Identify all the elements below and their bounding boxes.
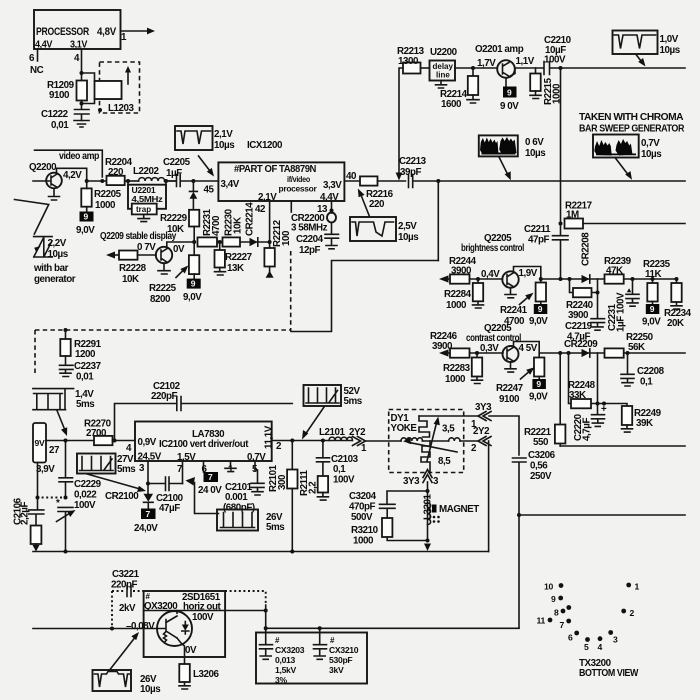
svg-text:0,013: 0,013 <box>275 655 296 665</box>
svg-text:TAKEN WITH CHROMA: TAKEN WITH CHROMA <box>579 112 683 123</box>
svg-text:7: 7 <box>208 472 213 482</box>
resistor R2234 <box>664 279 692 329</box>
sawtooth icon 2,2V <box>33 237 76 285</box>
svg-text:3kV: 3kV <box>329 665 344 675</box>
resistor R2239 <box>604 256 632 284</box>
capacitor C2208 <box>621 353 665 388</box>
black marker 24,0V <box>134 509 158 535</box>
wire main chroma bus <box>438 180 685 182</box>
capacitor C2237 <box>60 356 102 383</box>
wire yoke pin3 down <box>427 482 429 541</box>
svg-text:0,7V: 0,7V <box>641 138 660 149</box>
svg-text:10: 10 <box>544 582 553 592</box>
svg-text:550: 550 <box>533 437 549 448</box>
svg-text:generator: generator <box>34 274 76 285</box>
resistor R2101 <box>268 441 298 552</box>
ground arrow L3201 <box>424 539 431 552</box>
svg-text:9,0V: 9,0V <box>642 317 661 328</box>
inductor yoke H-coil right <box>449 438 460 441</box>
wire pin 40 <box>344 180 360 182</box>
svg-text:3: 3 <box>139 463 145 474</box>
svg-text:+: + <box>601 404 607 415</box>
wire bus 446 <box>560 445 685 447</box>
svg-text:3 58MHz: 3 58MHz <box>291 223 328 234</box>
capacitor C2106 branch: dashed link <box>37 497 65 499</box>
diode CR2213 <box>190 181 198 210</box>
dashed service line horizontal <box>35 329 290 331</box>
resistor R2230 <box>223 208 244 246</box>
svg-text:4: 4 <box>126 443 132 454</box>
wire R2213 drop with arrow <box>399 68 403 175</box>
svg-text:2Y2: 2Y2 <box>473 426 490 437</box>
pin 1 ground <box>225 461 236 472</box>
svg-text:7: 7 <box>560 620 565 630</box>
ground <box>74 121 89 128</box>
wire to R2249 <box>598 404 628 407</box>
svg-text:9: 9 <box>536 379 541 389</box>
waveform 52V 5ms <box>302 385 363 440</box>
wire <box>423 440 449 442</box>
connector 2Y2-2 chevrons <box>471 426 491 454</box>
svg-text:39K: 39K <box>636 418 653 429</box>
svg-text:220: 220 <box>108 167 124 178</box>
capacitor C2210 <box>544 35 685 75</box>
svg-text:BAR SWEEP GENERATOR: BAR SWEEP GENERATOR <box>579 124 684 135</box>
wire main video line <box>87 180 107 182</box>
resistor below C2106 <box>31 526 42 552</box>
resistor R3210 <box>351 518 428 547</box>
inductor yoke V-coil top <box>419 416 430 437</box>
inductor L1203 in dashed box <box>82 62 140 114</box>
svg-text:R2283: R2283 <box>443 363 471 374</box>
svg-text:500V: 500V <box>351 512 373 523</box>
svg-text:L3201: L3201 <box>423 493 434 520</box>
resistor R2291 on service line <box>60 328 101 360</box>
svg-text:R2229: R2229 <box>160 213 188 224</box>
node <box>559 66 563 70</box>
svg-text:O2201 amp: O2201 amp <box>475 44 524 55</box>
svg-text:R2205: R2205 <box>94 189 122 200</box>
potentiometer 3,9V box <box>33 423 94 498</box>
resistor R2205 <box>81 181 121 212</box>
resistor R2235 <box>643 259 671 302</box>
svg-text:24,0V: 24,0V <box>134 523 158 534</box>
svg-text:4700: 4700 <box>211 215 222 236</box>
wire horiz bus 628 <box>33 628 157 630</box>
waveform 0,6V 10us chroma <box>479 135 546 180</box>
bus wire base line <box>217 241 270 243</box>
svg-text:R2241: R2241 <box>500 305 528 316</box>
svg-text:27: 27 <box>49 445 60 456</box>
svg-text:3,4V: 3,4V <box>221 179 240 190</box>
svg-text:L1203: L1203 <box>108 103 135 114</box>
pin 5 capacitor C2101 <box>223 461 264 514</box>
resistor R2283 <box>443 353 483 385</box>
inductor L2101 <box>319 427 353 441</box>
wire video amp feed <box>35 150 103 177</box>
pin 6 stub NC <box>29 49 44 76</box>
wire to pin 45 <box>193 180 218 182</box>
svg-text:24,5V: 24,5V <box>138 452 162 463</box>
wire contrast collector loop <box>514 342 540 358</box>
inductor L3206 <box>179 664 220 689</box>
svg-text:line: line <box>436 71 450 80</box>
resistor R2217 <box>559 201 686 229</box>
svg-text:Q2209 stable display: Q2209 stable display <box>100 231 177 242</box>
capacitor C2229 <box>59 441 102 512</box>
svg-text:C2229: C2229 <box>74 479 102 490</box>
svg-text:1,1V: 1,1V <box>516 56 535 67</box>
svg-text:6: 6 <box>568 633 573 643</box>
svg-text:R2228: R2228 <box>119 263 147 274</box>
wire <box>165 180 176 182</box>
wire Q2205 emitter ground <box>505 288 516 298</box>
wire connector1 to C3206 net <box>489 416 519 455</box>
capacitor C2231 <box>607 279 639 332</box>
svg-text:10µs: 10µs <box>525 148 546 159</box>
svg-text:1300: 1300 <box>398 56 419 67</box>
svg-text:R2284: R2284 <box>444 289 472 300</box>
svg-text:1µF 100V: 1µF 100V <box>616 292 627 332</box>
resistor R2249 <box>622 406 662 432</box>
capacitor C1222 <box>41 109 89 131</box>
svg-text:3: 3 <box>613 635 618 645</box>
wire yoke horizontal bus <box>366 440 401 442</box>
svg-text:0.001: 0.001 <box>225 492 248 503</box>
yoke adjust arrow 1 <box>403 438 457 452</box>
svg-text:100V: 100V <box>544 55 566 66</box>
wire pin 1 output arrow <box>121 28 156 43</box>
arrow from 26V waveform to pin7 node <box>186 477 219 514</box>
waveform 26V 5ms <box>217 510 285 534</box>
svg-text:#: # <box>146 592 151 601</box>
transistor Q2200 <box>29 162 82 188</box>
svg-text:10µs: 10µs <box>398 232 419 243</box>
resistor R2231 <box>198 208 223 246</box>
svg-text:with bar: with bar <box>33 263 69 274</box>
connector 3Y3-1 chevrons <box>419 402 492 430</box>
svg-text:CX3210: CX3210 <box>329 645 359 655</box>
capacitor C2204 <box>296 223 339 256</box>
svg-text:1M: 1M <box>566 210 579 221</box>
capacitor C3206 <box>513 458 527 628</box>
dashed service line vertical <box>290 251 292 331</box>
waveform 1,0V 10us <box>613 31 681 67</box>
svg-text:trap: trap <box>136 205 151 214</box>
svg-text:20K: 20K <box>667 318 684 329</box>
wire <box>378 180 406 182</box>
svg-text:10µs: 10µs <box>214 140 235 151</box>
svg-text:300: 300 <box>277 474 288 490</box>
wire to connector 2 <box>460 440 478 442</box>
wire main vertical net from C2210 node <box>560 68 562 235</box>
svg-text:470pF: 470pF <box>349 502 376 513</box>
svg-text:0 6V: 0 6V <box>525 137 544 148</box>
svg-text:0,4V: 0,4V <box>481 269 500 280</box>
waveform 0,7V 10us chroma <box>593 135 662 180</box>
svg-text:CR2208: CR2208 <box>581 232 592 266</box>
yoke adjust arrow 2 <box>427 417 440 462</box>
svg-text:5: 5 <box>584 642 589 652</box>
black marker 9 0V <box>500 78 519 112</box>
svg-text:5ms: 5ms <box>117 464 136 475</box>
transformer TX3200 bottom view pins <box>537 582 640 680</box>
magnet icon + label <box>432 504 479 523</box>
wire stub pin 41 <box>290 201 292 212</box>
svg-text:4,7µF: 4,7µF <box>582 418 593 441</box>
svg-text:9,0V: 9,0V <box>529 392 548 403</box>
svg-text:45: 45 <box>204 185 215 196</box>
connector 3Y3-3 chevron <box>403 470 439 488</box>
svg-text:1000: 1000 <box>95 200 116 211</box>
electrolytic cap beside C2229 <box>56 498 76 552</box>
resistor R2229 <box>160 210 199 235</box>
wire bus 515 <box>519 514 685 516</box>
svg-text:9,0V: 9,0V <box>183 292 202 303</box>
svg-text:100V: 100V <box>74 500 96 511</box>
svg-text:1,5kV: 1,5kV <box>275 665 297 675</box>
svg-text:0,01: 0,01 <box>51 120 69 131</box>
wire Q2200 collector <box>57 168 87 181</box>
waveform 27V 5ms <box>77 454 146 493</box>
svg-text:3Y3: 3Y3 <box>475 402 492 413</box>
wire pin 7 <box>182 461 184 484</box>
svg-text:11: 11 <box>537 616 546 626</box>
svg-text:3Y3: 3Y3 <box>403 476 420 487</box>
svg-text:Q2200: Q2200 <box>29 162 57 173</box>
svg-text:9: 9 <box>191 279 196 289</box>
transistor Q2205 contrast <box>503 343 538 362</box>
svg-text:2: 2 <box>471 443 477 454</box>
resistor R2248 loop <box>568 353 598 408</box>
svg-text:IC2100 vert driver/out: IC2100 vert driver/out <box>159 439 249 450</box>
node <box>436 179 440 183</box>
waveform 2,1V 10us <box>175 126 235 177</box>
svg-text:C3204: C3204 <box>349 491 377 502</box>
svg-text:0,9V: 0,9V <box>138 437 157 448</box>
black marker 9,0V Q2209 <box>183 279 202 303</box>
svg-text:47pF: 47pF <box>528 235 550 246</box>
svg-text:4: 4 <box>74 53 80 64</box>
svg-text:2,5V: 2,5V <box>398 221 417 232</box>
contrast bus arrow input <box>439 349 449 356</box>
wire contrast bus <box>539 352 604 354</box>
svg-text:9: 9 <box>84 212 89 222</box>
svg-text:9 0V: 9 0V <box>500 101 519 112</box>
resistor R2228 with arrow <box>106 251 156 286</box>
waveform 2,5V 10us <box>350 189 419 244</box>
svg-text:13K: 13K <box>227 263 244 274</box>
svg-text:100V: 100V <box>333 475 355 486</box>
black marker 9,0V <box>642 302 661 328</box>
svg-text:0V: 0V <box>185 645 197 656</box>
svg-text:8: 8 <box>554 608 559 618</box>
resistor R2214 <box>440 68 479 110</box>
svg-text:33K: 33K <box>569 390 586 401</box>
wire pin4 top loop to C2102 <box>115 404 177 441</box>
svg-text:220: 220 <box>369 199 385 210</box>
wire <box>470 278 503 280</box>
wire L-path from pin40 net <box>291 261 438 332</box>
svg-text:11K: 11K <box>645 269 661 280</box>
resistor R2212 <box>264 219 292 277</box>
resistor R2204 <box>105 157 133 185</box>
transistor Q2201 amp <box>475 44 544 78</box>
svg-text:PROCESSOR: PROCESSOR <box>36 26 89 38</box>
capacitor C2219 <box>565 279 605 343</box>
diode CR2100 <box>105 491 153 508</box>
svg-text:#: # <box>330 636 335 645</box>
IC2100 LA7830 vert driver <box>126 422 282 476</box>
PROCESSOR box U1200 <box>34 10 121 51</box>
capacitor C2211 <box>524 224 568 279</box>
svg-text:video amp: video amp <box>59 151 99 162</box>
svg-text:2700: 2700 <box>86 428 107 439</box>
capacitor C2103 <box>317 441 359 486</box>
svg-text:10µs: 10µs <box>641 149 662 160</box>
svg-text:100V: 100V <box>192 612 214 623</box>
wire bus tail <box>624 278 677 280</box>
svg-text:220pF: 220pF <box>111 580 138 591</box>
connector 2Y2-1 chevrons <box>349 427 367 454</box>
svg-text:4 5V: 4 5V <box>519 343 538 354</box>
transistor QX3200 horiz out box <box>144 591 226 664</box>
delay line U2200 <box>421 47 458 88</box>
dashed link from C3221 to collector <box>225 591 266 605</box>
resistor R2241 <box>500 283 546 328</box>
svg-text:0,01: 0,01 <box>76 372 94 383</box>
svg-text:1: 1 <box>121 32 127 43</box>
wire Q2205 collector loop <box>514 267 541 283</box>
svg-text:10K: 10K <box>122 274 139 285</box>
svg-text:1200: 1200 <box>75 349 96 360</box>
svg-text:2,2: 2,2 <box>308 481 319 494</box>
svg-text:processor: processor <box>279 184 318 194</box>
svg-text:9100: 9100 <box>499 394 520 405</box>
svg-text:NC: NC <box>30 65 44 76</box>
svg-text:4,5MHz: 4,5MHz <box>132 194 163 204</box>
svg-text:C2208: C2208 <box>637 366 665 377</box>
svg-text:CR2209: CR2209 <box>564 339 598 350</box>
svg-text:3900: 3900 <box>432 341 453 352</box>
inductor yoke H-coil left <box>401 438 422 441</box>
svg-text:0,3V: 0,3V <box>480 343 499 354</box>
svg-text:10µs: 10µs <box>140 684 161 695</box>
wire <box>455 67 497 69</box>
svg-text:if/video: if/video <box>287 174 310 184</box>
capacitor C2213 <box>399 156 439 188</box>
resistor R2213 <box>397 46 425 74</box>
svg-text:2,2V: 2,2V <box>48 238 67 249</box>
svg-text:9100: 9100 <box>49 90 70 101</box>
svg-text:#: # <box>275 636 280 645</box>
node pin45 junction <box>191 179 195 183</box>
pin 6 black marker 24 0V <box>198 461 222 496</box>
svg-text:11,1V: 11,1V <box>264 425 275 449</box>
svg-text:5ms: 5ms <box>76 399 95 410</box>
svg-text:0,7V: 0,7V <box>247 452 266 463</box>
wire bus 551 ground return <box>33 551 489 553</box>
black marker 9,0V <box>529 377 548 403</box>
svg-text:4,4V: 4,4V <box>320 192 339 203</box>
svg-text:12pF: 12pF <box>299 245 321 256</box>
waveform 1,4V 5ms <box>33 389 95 436</box>
resistor R2284 <box>444 279 484 311</box>
inductor yoke V-coil bottom <box>421 441 430 473</box>
resistor R2227 <box>215 242 253 275</box>
svg-text:brightness control: brightness control <box>461 243 525 254</box>
svg-text:MAGNET: MAGNET <box>439 504 479 515</box>
zigzag chroma input <box>15 200 49 235</box>
svg-text:9: 9 <box>650 304 655 314</box>
wire pin 2 bus <box>272 440 352 442</box>
svg-text:3900: 3900 <box>568 310 589 321</box>
black marker 9,0V <box>529 302 548 328</box>
svg-text:24 0V: 24 0V <box>198 485 222 496</box>
svg-text:56K: 56K <box>628 342 645 353</box>
svg-text:1000: 1000 <box>445 374 466 385</box>
IC U2202 PART OF TA8879N <box>218 162 344 203</box>
resistor R2247 <box>496 358 544 406</box>
resistor R2240 loop <box>566 279 598 321</box>
svg-text:C3206: C3206 <box>528 450 556 461</box>
resistor R2225 <box>149 242 199 305</box>
wire pin 4 <box>74 49 84 81</box>
svg-text:C2211: C2211 <box>524 224 551 235</box>
diode CR2214 <box>245 202 258 246</box>
wire contrast emitter ground <box>505 362 516 372</box>
svg-text:8,5: 8,5 <box>438 456 451 467</box>
svg-text:9: 9 <box>507 88 512 98</box>
resistor R2250 <box>605 332 654 358</box>
svg-text:0 7V: 0 7V <box>137 242 156 253</box>
svg-text:1,0V: 1,0V <box>660 34 679 45</box>
transistor Q2205 brightness <box>502 268 537 288</box>
svg-text:4,8V: 4,8V <box>97 26 117 38</box>
wire <box>125 180 139 182</box>
svg-text:2,2µF: 2,2µF <box>20 502 31 525</box>
svg-text:9,0V: 9,0V <box>76 225 95 236</box>
svg-text:C2213: C2213 <box>399 156 427 167</box>
svg-text:47K: 47K <box>606 266 623 277</box>
svg-text:39pF: 39pF <box>400 167 422 178</box>
trap filter U2201 <box>128 181 166 222</box>
svg-text:3,5: 3,5 <box>442 424 455 435</box>
svg-text:2: 2 <box>276 441 282 452</box>
svg-text:7: 7 <box>146 509 151 519</box>
svg-text:R3210: R3210 <box>351 525 379 536</box>
svg-text:3,1V: 3,1V <box>70 40 88 51</box>
svg-text:5ms: 5ms <box>266 522 285 533</box>
svg-text:3,3V: 3,3V <box>323 180 342 191</box>
capacitor C3221 on dashed link <box>112 586 144 629</box>
svg-text:10µs: 10µs <box>48 249 69 260</box>
svg-text:10K: 10K <box>233 217 244 234</box>
svg-text:42: 42 <box>255 204 266 215</box>
svg-text:1000: 1000 <box>353 536 374 547</box>
transistor Q2209 <box>137 242 185 263</box>
wire Q2209 emitter ground <box>158 263 170 274</box>
waveform 26V 10us <box>93 632 162 695</box>
wire connector2 drop <box>488 441 490 552</box>
wire bus to diode <box>541 278 605 280</box>
wire to bus <box>193 227 195 243</box>
svg-text:9: 9 <box>551 594 556 604</box>
svg-text:U2200: U2200 <box>430 47 458 58</box>
inductor L3201 <box>423 493 434 524</box>
resistor R2221 <box>524 353 565 448</box>
svg-text:3%: 3% <box>275 675 287 685</box>
